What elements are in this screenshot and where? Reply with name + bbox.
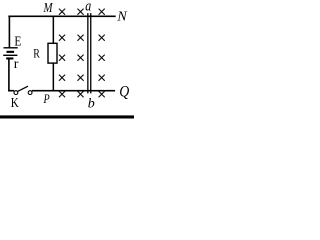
svg-text:×: × bbox=[57, 50, 66, 67]
switch K lever bbox=[18, 86, 28, 91]
svg-text:a: a bbox=[85, 0, 91, 14]
battery plate4 short thick bbox=[6, 57, 13, 59]
battery E,r plate1 long bbox=[4, 47, 18, 48]
svg-text:×: × bbox=[97, 30, 106, 47]
rod ab left line bbox=[87, 13, 88, 93]
svg-text:×: × bbox=[76, 30, 85, 47]
svg-text:×: × bbox=[76, 50, 85, 67]
svg-text:P: P bbox=[43, 91, 50, 106]
svg-text:×: × bbox=[57, 30, 66, 47]
bottom separator bar bbox=[0, 115, 134, 118]
svg-text:×: × bbox=[97, 87, 106, 104]
svg-text:E: E bbox=[14, 35, 21, 50]
wire bottom left segment bbox=[8, 90, 14, 92]
switch K circle left bbox=[14, 91, 18, 95]
switch K circle right bbox=[28, 91, 32, 95]
svg-text:M: M bbox=[43, 1, 54, 16]
wire left vertical top (rail to battery) bbox=[9, 16, 11, 48]
wire resistor branch upper bbox=[53, 16, 55, 44]
wire bottom rail PQ right of switch bbox=[32, 90, 115, 92]
svg-text:×: × bbox=[97, 70, 106, 87]
svg-text:r: r bbox=[14, 57, 19, 72]
wire top rail MN bbox=[8, 16, 115, 18]
rod ab right line bbox=[90, 13, 91, 93]
battery plate2 short thick bbox=[7, 51, 15, 53]
svg-text:×: × bbox=[57, 87, 66, 104]
battery plate3 long bbox=[3, 55, 17, 56]
svg-text:×: × bbox=[76, 4, 85, 21]
svg-text:×: × bbox=[97, 50, 106, 67]
svg-text:N: N bbox=[116, 9, 127, 24]
svg-text:×: × bbox=[97, 4, 106, 21]
svg-text:Q: Q bbox=[119, 83, 129, 100]
svg-text:×: × bbox=[76, 87, 85, 104]
resistor R box bbox=[48, 43, 57, 63]
svg-text:b: b bbox=[88, 97, 95, 112]
wire resistor branch lower bbox=[53, 63, 55, 90]
svg-text:×: × bbox=[76, 70, 85, 87]
svg-text:×: × bbox=[57, 70, 66, 87]
wire left vertical bottom (battery to switch corner) bbox=[8, 59, 10, 91]
svg-text:R: R bbox=[33, 46, 40, 61]
svg-text:×: × bbox=[57, 4, 66, 21]
svg-text:K: K bbox=[11, 96, 19, 111]
